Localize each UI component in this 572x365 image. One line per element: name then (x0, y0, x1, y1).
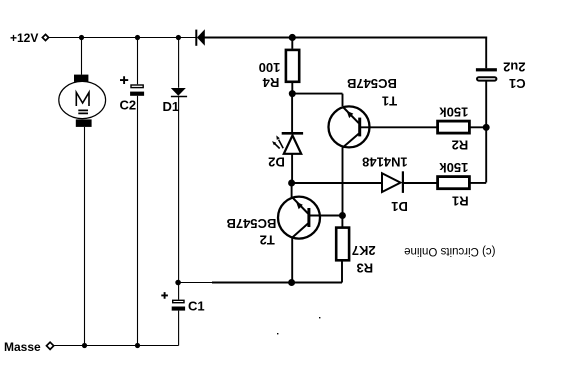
svg-text:D1: D1 (391, 199, 408, 214)
svg-text:Masse: Masse (4, 340, 41, 354)
svg-text:C1: C1 (188, 299, 205, 314)
svg-text:D2: D2 (268, 155, 285, 170)
svg-text:+12V: +12V (10, 31, 38, 45)
svg-text:100: 100 (259, 60, 281, 75)
svg-text:C1: C1 (509, 76, 526, 91)
svg-text:150k: 150k (439, 104, 469, 119)
svg-text:(c) Circuits Online: (c) Circuits Online (404, 245, 495, 257)
svg-text:R2: R2 (452, 137, 469, 152)
svg-text:D1: D1 (163, 99, 180, 114)
svg-text:1N4148: 1N4148 (362, 155, 408, 170)
svg-text:C2: C2 (120, 98, 137, 113)
svg-text:R3: R3 (356, 261, 373, 276)
svg-text:2K7: 2K7 (352, 243, 376, 258)
svg-text:150k: 150k (439, 160, 469, 175)
svg-text:R1: R1 (452, 193, 469, 208)
svg-text:T2: T2 (260, 233, 275, 248)
svg-text:BC547B: BC547B (347, 76, 397, 91)
svg-text:2u2: 2u2 (503, 59, 525, 74)
svg-text:T1: T1 (382, 93, 397, 108)
svg-text:BC547B: BC547B (226, 216, 276, 231)
svg-text:R4: R4 (262, 75, 279, 90)
